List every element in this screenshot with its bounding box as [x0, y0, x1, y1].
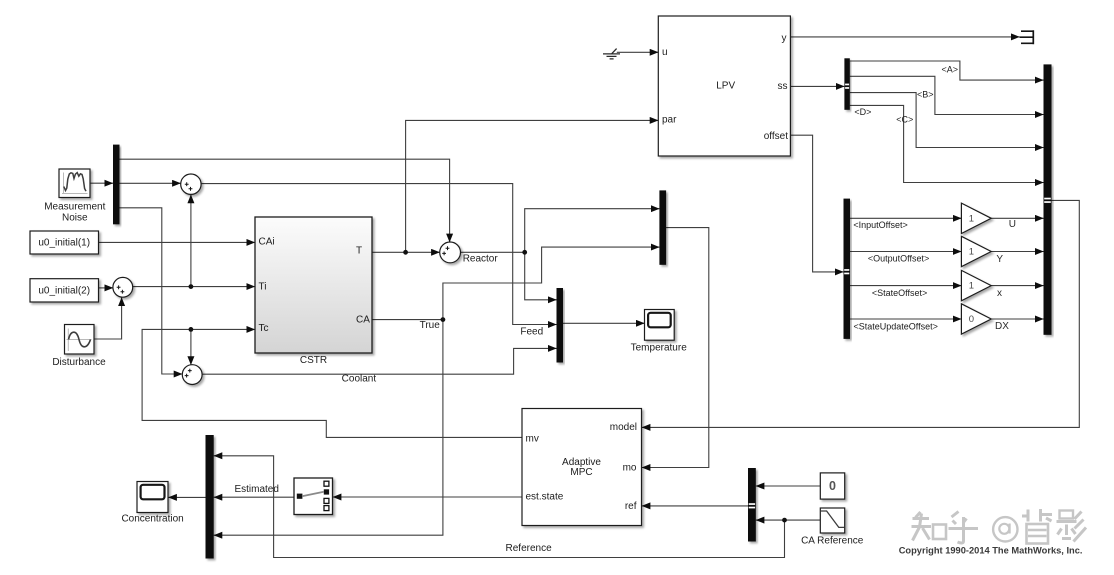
- svg-text:Concentration: Concentration: [121, 514, 183, 525]
- gain gain U: [961, 203, 1016, 233]
- svg-text:Y: Y: [996, 254, 1003, 265]
- wire u0_initial(2) to sum F2: [99, 287, 114, 289]
- wire Reference branch to Concentration mux in1: [214, 456, 785, 558]
- svg-text:offset: offset: [764, 131, 788, 142]
- svg-text:T: T: [356, 246, 362, 257]
- svg-text:Reactor: Reactor: [463, 254, 499, 265]
- wire CSTR CA out (True): [372, 319, 443, 321]
- svg-text:mo: mo: [623, 462, 637, 473]
- svg-text:1: 1: [969, 281, 974, 292]
- block Disturbance: [65, 325, 95, 355]
- svg-text:Coolant: Coolant: [342, 373, 377, 384]
- svg-text:<OutputOffset>: <OutputOffset>: [868, 253, 929, 263]
- svg-text:Noise: Noise: [62, 213, 88, 224]
- wire sum F1 out to Feed mux in2: [201, 184, 556, 325]
- scope block Concentration scope: [137, 482, 168, 513]
- wire T branch to LPV par: [406, 120, 659, 252]
- mux/bus bar mo mux: [659, 190, 666, 264]
- node junction T/par: [403, 250, 408, 255]
- mux/bus bar ref mux: [748, 468, 756, 542]
- wire offset row 4 to gain: [850, 318, 961, 320]
- wire LPV ss to bus selector: [790, 85, 844, 87]
- svg-text:u0_initial(1): u0_initial(1): [38, 237, 90, 248]
- sum block sum Coolant: [182, 365, 202, 385]
- svg-text:0: 0: [829, 479, 836, 493]
- port marks ref mux output: [749, 503, 755, 508]
- wire bus tag A route: [850, 61, 1044, 80]
- wire Ground to LPV u: [617, 51, 659, 53]
- wire model mux out to MPC model: [642, 200, 1080, 427]
- mux/bus bar bus selector offset: [844, 199, 851, 339]
- svg-text:CSTR: CSTR: [300, 355, 327, 366]
- wire gain 3 out to model mux: [991, 285, 1043, 287]
- block Constant 0: [820, 473, 844, 499]
- wire noise ch2 to sum F1: [120, 182, 181, 184]
- wire offset row 2 to gain: [850, 251, 961, 253]
- svg-text:ss: ss: [778, 81, 788, 92]
- svg-text:1: 1: [969, 247, 974, 258]
- wire offset row 3 to gain: [850, 285, 961, 287]
- wire CA branch down to Concentration mux in3: [214, 320, 443, 536]
- wire MPC mv to CSTR Tc: [142, 329, 522, 437]
- svg-text:DX: DX: [995, 321, 1009, 332]
- svg-text:est.state: est.state: [526, 491, 564, 502]
- wire ref mux out to MPC ref: [642, 505, 748, 507]
- gain gain DX: [961, 304, 1009, 334]
- wire LPV y to Terminator: [790, 36, 1019, 38]
- terminator block: [1020, 30, 1034, 44]
- svg-text:Adaptive: Adaptive: [562, 457, 601, 468]
- wire gain 1 out to model mux: [991, 217, 1043, 219]
- node junction Reactor out: [522, 250, 527, 255]
- svg-text:ref: ref: [625, 501, 637, 512]
- port marks bus selector ss input: [845, 84, 849, 89]
- svg-text:<StateUpdateOffset>: <StateUpdateOffset>: [853, 321, 937, 331]
- svg-text:Measurement: Measurement: [44, 202, 105, 213]
- sum block sum F1 (noise+Ti): [181, 174, 201, 194]
- wire Measurement Noise to demux: [91, 182, 114, 184]
- svg-text:Feed: Feed: [520, 327, 543, 338]
- port marks model mux output: [1044, 198, 1051, 203]
- svg-text:mv: mv: [526, 434, 539, 445]
- wire Reactor sum out: [461, 251, 525, 253]
- scope block Temperature scope: [645, 310, 675, 341]
- wire Disturbance to sum F2 bottom: [94, 297, 122, 339]
- svg-text:<InputOffset>: <InputOffset>: [853, 220, 907, 230]
- wire Reactor out branch to mo mux in1: [525, 209, 660, 253]
- ground symbol: [603, 49, 620, 59]
- svg-text:x: x: [997, 288, 1002, 299]
- block Adaptive MPC: [522, 409, 642, 526]
- svg-text:<StateOffset>: <StateOffset>: [872, 288, 927, 298]
- svg-text:Estimated: Estimated: [234, 484, 278, 495]
- wire CA branch to mo mux in2: [443, 247, 660, 320]
- svg-text:Ti: Ti: [259, 281, 267, 292]
- wire Feed mux out to Temperature scope: [563, 322, 645, 324]
- wire noise ch3 to Coolant sum left: [120, 208, 183, 374]
- svg-text:<B>: <B>: [917, 90, 934, 100]
- wire CSTR T out: [372, 251, 440, 253]
- svg-text:u0_initial(2): u0_initial(2): [38, 285, 90, 296]
- node junction CA Reference branch: [782, 518, 787, 523]
- mux/bus bar bus selector ss: [844, 58, 849, 110]
- gain gain Y: [961, 236, 1003, 266]
- svg-text:Copyright 1990-2014 The MathWo: Copyright 1990-2014 The MathWorks, Inc.: [899, 546, 1083, 556]
- mux/bus bar Feed mux: [557, 288, 564, 363]
- wire bus tag B route: [850, 76, 1044, 114]
- svg-text:u: u: [662, 47, 668, 58]
- svg-text:<A>: <A>: [941, 65, 958, 75]
- wire u0_initial(1) to CAi: [99, 241, 256, 243]
- svg-text:0: 0: [969, 314, 974, 325]
- node junction Tc branch: [189, 327, 194, 332]
- svg-text:<D>: <D>: [854, 107, 871, 117]
- svg-text:U: U: [1009, 219, 1016, 230]
- wire Ti branch up to sum F1 bottom: [190, 195, 192, 287]
- svg-text:CA: CA: [356, 314, 370, 325]
- wire MPC est.state to switch: [333, 496, 522, 498]
- svg-text:1: 1: [969, 213, 974, 224]
- svg-text:LPV: LPV: [716, 80, 735, 91]
- wire offset row 1 to gain: [850, 217, 961, 219]
- svg-text:True: True: [420, 320, 441, 331]
- block u0_initial(2): [30, 279, 99, 302]
- gain gain X: [961, 270, 1002, 300]
- wire Coolant sum out to Feed mux in3: [202, 348, 556, 374]
- wire bus tag D route: [850, 105, 1044, 182]
- sum block sum F2 (u0+disturbance): [113, 277, 133, 297]
- wire sum F2 out to Ti: [133, 286, 255, 288]
- mux/bus bar Concentration mux: [206, 435, 214, 559]
- svg-text:MPC: MPC: [570, 467, 592, 478]
- block CSTR: [255, 217, 372, 353]
- wire LPV offset to bus selector2: [790, 135, 843, 272]
- mux/bus bar noise demux: [113, 145, 120, 225]
- svg-text:Reference: Reference: [506, 543, 553, 554]
- wire gain 2 out to model mux: [991, 251, 1043, 253]
- svg-text:model: model: [610, 422, 637, 433]
- wire Constant 0 to ref mux: [756, 485, 821, 487]
- block CA Reference: [820, 508, 844, 533]
- wire Tc branch down to Coolant sum top: [190, 329, 192, 364]
- wire Concentration mux out to scope: [168, 496, 205, 498]
- wire gain 4 out to model mux: [991, 318, 1043, 320]
- watermark zhihu @beiying: [912, 509, 1087, 544]
- svg-text:CAi: CAi: [259, 237, 275, 248]
- svg-text:Disturbance: Disturbance: [52, 357, 106, 368]
- wire bus tag C route: [850, 93, 1044, 148]
- block LPV: [658, 16, 790, 156]
- mux/bus bar model mux: [1044, 64, 1052, 334]
- block switch: [294, 478, 333, 515]
- node junction Ti branch: [189, 284, 194, 289]
- wire noise ch1 to Reactor sum top: [120, 159, 450, 242]
- svg-text:Tc: Tc: [259, 323, 269, 334]
- wire switch out to Concentration mux in2: [214, 496, 294, 498]
- svg-text:y: y: [782, 33, 787, 44]
- wire CA Reference to ref mux: [756, 519, 821, 521]
- block Measurement Noise: [59, 169, 90, 198]
- node junction True CA: [441, 317, 446, 322]
- svg-text:Temperature: Temperature: [631, 343, 688, 354]
- svg-text:CA Reference: CA Reference: [801, 536, 864, 547]
- wire Reactor out branch to Feed mux in1: [525, 252, 557, 299]
- svg-text:<C>: <C>: [896, 115, 913, 125]
- svg-text:par: par: [662, 114, 677, 125]
- sum block sum Reactor: [440, 242, 461, 263]
- port marks bus selector offset input: [844, 269, 849, 274]
- wire mo mux out to MPC mo: [642, 228, 709, 468]
- block u0_initial(1): [30, 231, 99, 254]
